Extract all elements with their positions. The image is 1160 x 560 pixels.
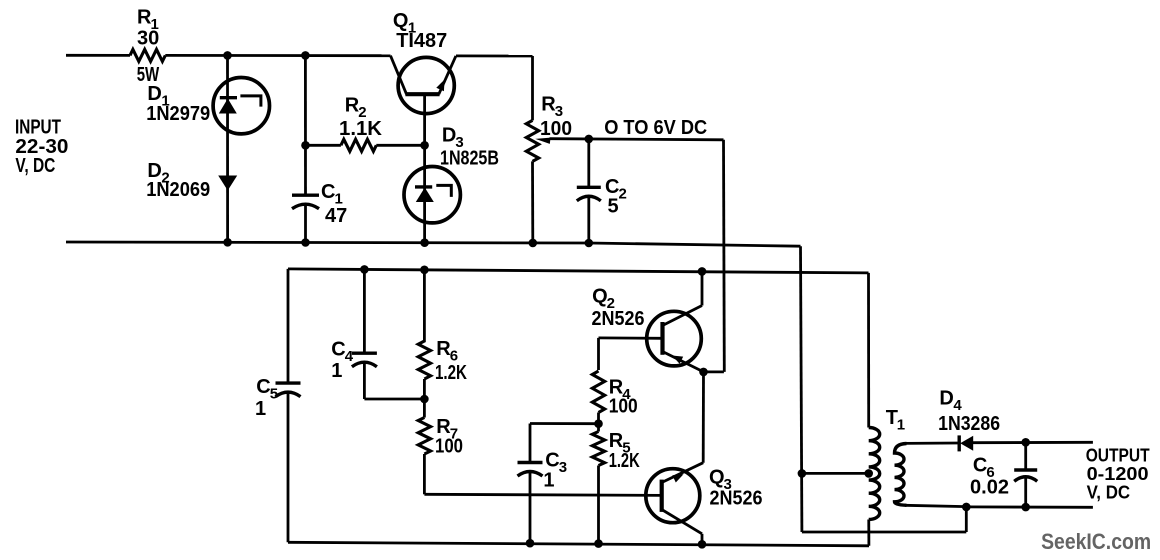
svg-text:SeekIC.com: SeekIC.com [1041,529,1151,554]
svg-text:1.1K: 1.1K [339,118,383,140]
svg-text:1: 1 [331,360,342,382]
svg-text:C: C [256,376,270,398]
svg-text:100: 100 [609,396,638,418]
svg-text:100: 100 [540,118,572,140]
svg-text:1: 1 [255,398,266,420]
svg-text:30: 30 [137,28,159,50]
svg-text:0-1200: 0-1200 [1087,464,1149,484]
svg-text:0.02: 0.02 [970,477,1009,499]
svg-text:Q: Q [393,10,409,32]
svg-text:1.2K: 1.2K [609,450,640,472]
svg-text:1: 1 [897,416,905,433]
svg-text:D: D [147,83,161,105]
svg-text:1N2979: 1N2979 [146,103,210,125]
svg-text:47: 47 [325,205,347,227]
svg-text:1: 1 [543,470,554,492]
svg-text:V, DC: V, DC [15,155,55,177]
svg-text:5: 5 [608,196,619,218]
svg-text:C: C [331,338,345,360]
svg-text:4: 4 [345,348,354,365]
svg-text:2N526: 2N526 [592,308,645,330]
svg-text:1N3286: 1N3286 [938,413,1000,435]
svg-text:V, DC: V, DC [1087,483,1131,503]
svg-text:D: D [442,124,456,146]
svg-text:1N825B: 1N825B [440,148,499,170]
svg-text:2: 2 [619,186,627,203]
svg-text:Q: Q [592,286,608,308]
svg-text:C: C [321,181,335,203]
svg-text:O TO 6V DC: O TO 6V DC [604,117,707,139]
svg-text:1N2069: 1N2069 [146,179,210,201]
svg-text:2N526: 2N526 [710,488,763,510]
svg-text:1.2K: 1.2K [435,362,467,384]
svg-text:C: C [545,450,559,472]
svg-text:3: 3 [559,459,567,476]
svg-text:5: 5 [270,385,278,402]
svg-text:TI487: TI487 [396,30,447,52]
svg-text:OUTPUT: OUTPUT [1086,446,1150,466]
svg-text:D: D [939,388,953,410]
svg-text:Q: Q [709,467,725,489]
svg-text:100: 100 [435,436,463,458]
svg-text:4: 4 [953,397,962,414]
svg-text:C: C [973,455,987,477]
